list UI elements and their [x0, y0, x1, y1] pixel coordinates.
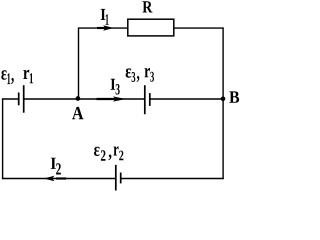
- label I3: [111, 79, 120, 95]
- wire right vertical (top-right corner through node B to bottom-right corner): [222, 27, 224, 179]
- wire resistor R to top-right corner: [174, 27, 223, 29]
- label R: [142, 1, 152, 12]
- wire top-left horizontal (node A up-branch to resistor R): [79, 27, 128, 29]
- wire middle left (left rail to battery e1): [2, 98, 19, 100]
- label I2: [51, 158, 61, 175]
- wire bottom right (battery e2 to bottom-right corner): [121, 178, 224, 180]
- label A: [72, 107, 83, 119]
- label e2, r2: [94, 146, 123, 160]
- current arrow I3: [97, 96, 127, 101]
- node A: [76, 96, 81, 101]
- label B: [229, 91, 239, 102]
- wire middle right (battery e3 to node B): [150, 98, 223, 100]
- label e3, r3: [126, 68, 154, 82]
- label e1, r1: [1, 70, 33, 84]
- battery e1 long plate: [23, 85, 25, 113]
- current arrow I2: [44, 176, 66, 182]
- wire left rail vertical: [2, 98, 4, 179]
- battery e3 short plate: [149, 93, 151, 106]
- current arrow I1: [97, 25, 114, 31]
- node B: [221, 97, 226, 102]
- battery e2 short plate: [120, 173, 122, 184]
- resistor R: [128, 19, 174, 36]
- battery e1 short plate: [18, 93, 20, 106]
- battery e2 long plate: [115, 165, 117, 191]
- wire bottom left (left rail to battery e2): [2, 178, 116, 180]
- label I1: [101, 9, 109, 25]
- wire middle (battery e1 through node A to battery e3): [24, 98, 145, 100]
- wire left vertical of top loop (node A to top-left corner): [78, 27, 80, 99]
- battery e3 long plate: [144, 85, 146, 114]
